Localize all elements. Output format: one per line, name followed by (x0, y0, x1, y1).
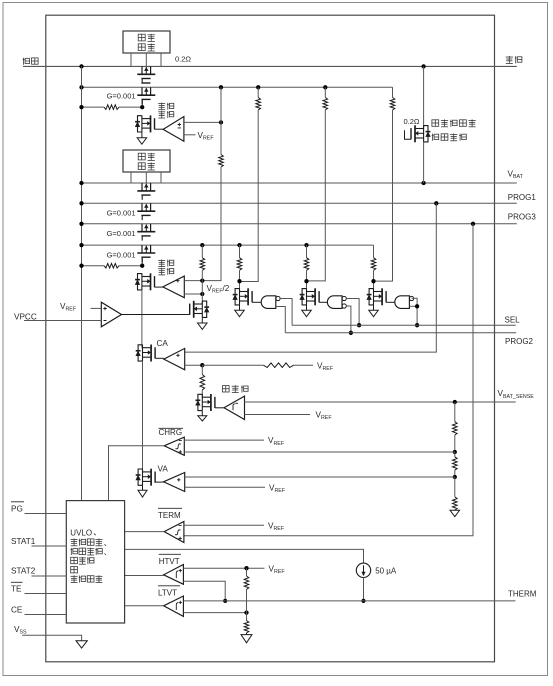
transistor Q3 VBAT rail FET (141, 183, 143, 191)
transistor Q14 (306, 288, 308, 305)
junction G3 tie (415, 304, 419, 308)
wire x325 lower (307, 110, 326, 281)
junction gate feed at bus (79, 105, 83, 109)
wire SEL line (292, 324, 516, 326)
svg-text:50 µA: 50 µA (375, 567, 397, 576)
wire ideal diode drain (423, 66, 425, 128)
transistor Q10 CA FET (142, 345, 144, 362)
label PG (11, 501, 24, 503)
svg-text:PROG3: PROG3 (508, 212, 537, 221)
wire PG (25, 513, 67, 515)
wire G1 bottom output to PROG2 (276, 307, 286, 333)
wire gate feed lower (82, 265, 105, 267)
ground arrow under Q9 (201, 318, 203, 323)
resistor R10 (373, 245, 375, 258)
junction divider CHRG tap (453, 450, 457, 454)
resistor R3 (256, 98, 261, 111)
junction lower gate feed at FET (140, 264, 144, 268)
svg-text:UVLO: UVLO (70, 528, 92, 537)
wire U5 bottom input (245, 414, 311, 416)
wire x392 top (392, 87, 394, 97)
direction control box B2 (123, 150, 170, 172)
pin B2 left (130, 172, 132, 183)
wire PROG3 tap to TERM (184, 224, 473, 536)
wire divider mid1 (454, 435, 456, 452)
resistor R2 (219, 155, 224, 168)
wire CA ref (202, 364, 263, 366)
label output (506, 56, 513, 63)
wire Q1 gate to Q2 gate (141, 79, 143, 84)
wire Q10 gate to U4 (155, 357, 164, 359)
wire U6 top input (184, 439, 264, 441)
wire G2 bubble output to SEL (347, 299, 359, 326)
svg-text:0.2Ω: 0.2Ω (404, 117, 420, 126)
op-amp U2 current limit 2 (163, 276, 185, 298)
svg-text:CA: CA (157, 339, 169, 348)
junction U10 ref tap (244, 610, 248, 614)
label input (23, 58, 30, 65)
svg-text:STAT2: STAT2 (11, 566, 36, 575)
resistor R8 (239, 245, 241, 258)
wire U4 bottom input (185, 364, 203, 366)
wire U9 output to UVLO (125, 575, 164, 577)
node junction input bus on top rail (79, 64, 83, 68)
Q2 gate bar upper (141, 82, 150, 84)
comparator U10 LTVT (164, 596, 184, 616)
wire Q12 gate to U5 (215, 407, 224, 409)
wire Q14 drain (306, 281, 308, 291)
wire Q14 gate lead (319, 301, 328, 303)
wire x392 lower (374, 110, 393, 281)
svg-text:THERM: THERM (508, 589, 537, 598)
ground arrow divider (454, 509, 456, 511)
resistor R17 (244, 621, 249, 634)
wire x325 top (324, 87, 326, 97)
junction rail245 x202 (200, 243, 204, 247)
wire Q13 drain (239, 281, 241, 291)
resistor R15 (454, 477, 456, 497)
svg-text:CHRG: CHRG (159, 428, 183, 437)
junction Q13 drain node (237, 279, 241, 283)
resistor R16 (244, 576, 249, 590)
wire U1 top input (184, 121, 221, 123)
svg-text:VPCC: VPCC (14, 312, 37, 321)
wire Q10 down to Q11 (142, 361, 144, 472)
svg-text:G=0.001: G=0.001 (107, 209, 136, 218)
junction rail B at bus (79, 85, 83, 89)
wire U2 bottom input (184, 293, 202, 295)
wire gate feed top right (119, 106, 142, 108)
op-amp U1 current limit (163, 117, 184, 142)
wire VPCC input (24, 320, 101, 322)
pin B1 right (160, 53, 162, 66)
wire R11 to Q12 (201, 390, 203, 397)
transistor Q7 current limit FET (141, 115, 143, 132)
label sync switch (432, 134, 439, 141)
wire PROG3 rail (82, 223, 517, 225)
svg-text:VA: VA (158, 465, 169, 474)
transistor Q2 power FET lower (141, 87, 143, 95)
transistor Q13 (239, 288, 241, 305)
wire UVLO to I1 (125, 549, 364, 563)
op-amp U3 VPCC buffer (101, 302, 121, 327)
svg-text:G=0.001: G=0.001 (107, 250, 136, 259)
wire ref chain mid (246, 590, 248, 621)
wire x221 upper (220, 87, 222, 154)
label TE (11, 581, 23, 583)
resistor R11 (200, 375, 205, 391)
junction U9 on THERM (223, 599, 227, 603)
wire R11 top (201, 365, 203, 374)
direction control box B1 (123, 31, 170, 53)
wire rail 245 (82, 244, 374, 246)
resistor R4 (323, 98, 328, 111)
label LTVT (158, 585, 180, 587)
junction gate feed at FET gate (140, 105, 144, 109)
wire Q8 source down to Q10 (141, 290, 143, 348)
label ideal diode (432, 120, 439, 127)
pin B1 left (130, 53, 132, 66)
transistor Q12 precharge FET (201, 394, 203, 411)
ground VSS (76, 641, 87, 648)
label CHRG (159, 427, 184, 429)
resistor R14 (454, 452, 456, 457)
pin B2 middle (145, 172, 147, 183)
resistor R7 (201, 245, 203, 258)
junction U1 input x221 (219, 120, 223, 124)
junction Q14 drain node (304, 279, 308, 283)
junction PROG3 tap (471, 222, 475, 226)
junction rail245 x306 (304, 243, 308, 247)
svg-text:TERM: TERM (158, 511, 181, 520)
wire U6 output to UVLO (109, 446, 165, 501)
wire U10 output to UVLO (125, 605, 164, 607)
transistor Q15 (373, 288, 375, 305)
junction VBAT at ideal diode (421, 181, 425, 185)
wire x221 lower (202, 167, 221, 281)
ground arrow under Q14 (306, 305, 308, 310)
transistor Q11 VA FET (142, 469, 144, 486)
ground arrow under Q15 (373, 305, 375, 310)
junction U9 ref tap (244, 566, 248, 570)
junction battery divider top (453, 400, 457, 404)
wire Q9 drain (201, 294, 203, 304)
svg-text:0.2Ω: 0.2Ω (175, 55, 191, 64)
wire gate feed top (82, 106, 105, 108)
junction I1 on THERM (361, 599, 365, 603)
svg-text:/2: /2 (223, 284, 230, 293)
comparator U7 VA (164, 473, 185, 492)
resistor R5 (390, 98, 395, 111)
op-amp U4 CA (164, 348, 185, 369)
gate G3 (395, 296, 410, 309)
wire Q11 gate to U7 (155, 481, 163, 483)
wire TE (25, 593, 67, 595)
wire CE (25, 614, 67, 616)
resistor R9 (306, 245, 308, 258)
junction U4 bottom input (200, 363, 204, 367)
resistor R12 (264, 363, 294, 368)
junction Q15 drain node (371, 279, 375, 283)
junction PROG1 tap (434, 201, 438, 205)
svg-text:LTVT: LTVT (158, 588, 177, 597)
wire PROG1 tap to CA (185, 203, 437, 352)
junction VBAT at bus (79, 181, 83, 185)
comparator U9 HTVT (164, 565, 184, 585)
svg-text:PG: PG (11, 505, 23, 514)
resistor R13 (454, 402, 456, 422)
junction rail B x258 (256, 85, 260, 89)
svg-text:PROG2: PROG2 (505, 337, 534, 346)
wire Q16 source to VBAT (423, 142, 425, 183)
label current limit 2 (158, 259, 165, 266)
wire Q13 gate lead (252, 301, 261, 303)
transistor Q6 G=0.001 FET rail245 (141, 245, 143, 253)
gate G2 (327, 296, 342, 309)
junction rail245 x239 (237, 243, 241, 247)
wire CA ref right (294, 364, 314, 366)
junction PROG3 at bus (79, 222, 83, 226)
svg-text:G=0.001: G=0.001 (107, 229, 136, 238)
svg-text:HTVT: HTVT (159, 557, 180, 566)
wire divider mid2 (454, 470, 456, 477)
wire G3 outputs tied (412, 298, 418, 325)
wire VBAT rail (82, 182, 517, 184)
wire R7 to junctions (201, 270, 203, 294)
gate G1 (261, 296, 276, 309)
label HTVT (159, 553, 181, 555)
wire STAT2 (32, 575, 67, 577)
junction G2 on SEL (357, 323, 361, 327)
node junction ideal-diode on top rail (421, 64, 425, 68)
wire buffer plus input (91, 307, 102, 309)
junction rail245 at bus (79, 243, 83, 247)
UVLO control logic box B3 (66, 501, 124, 623)
junction divider VA tap (453, 475, 457, 479)
wire Q16 gate lead (405, 130, 412, 139)
wire Q15 drain (373, 281, 375, 291)
junction U2 top input (200, 278, 204, 282)
wire Q15 gate lead (386, 301, 395, 303)
ground arrow under Q13 (239, 305, 241, 310)
wire VSS (22, 635, 81, 640)
wire left bus vertical (81, 66, 83, 500)
wire PROG1 rail (82, 202, 517, 204)
ground arrow ref chain (246, 633, 248, 635)
wire Q7 gate to U1 (155, 128, 164, 130)
svg-text:PROG1: PROG1 (508, 193, 537, 202)
label precharge (222, 386, 229, 392)
wire U2 top input (184, 280, 202, 282)
label TERM (158, 507, 182, 509)
transistor Q5 G=0.001 FET PROG3 (141, 224, 143, 232)
label current limit 1 (158, 103, 165, 110)
junction G3 on SEL (415, 323, 419, 327)
wire U10 bottom input (183, 612, 246, 614)
wire STAT1 (32, 545, 67, 547)
svg-text:SEL: SEL (505, 316, 521, 325)
pin B1 middle (145, 53, 147, 66)
wire I1 to THERM (363, 578, 365, 601)
wire PROG2 line (285, 332, 516, 334)
wire x258 lower (240, 110, 259, 282)
wire U7 bottom input (185, 486, 265, 488)
junction rail B x325 (323, 85, 327, 89)
wire U5 top input / VBAT_SENSE line (245, 401, 516, 403)
transistor Q4 G=0.001 FET PROG1 (141, 203, 143, 211)
transistor Q8 current limit FET 2 (141, 273, 143, 290)
IC boundary box (46, 15, 495, 662)
wire Q9 gate lead (122, 314, 190, 316)
transistor Q1 power FET upper (141, 66, 143, 74)
svg-text:CE: CE (11, 605, 23, 614)
wire U8 output to UVLO (125, 531, 164, 533)
wire G1 bubble output to SEL (280, 299, 292, 326)
wire G2 bottom output to PROG2 (347, 306, 351, 333)
junction rail B x221 (219, 85, 223, 89)
ground arrow under Q11 (142, 485, 144, 490)
wire x258 top (257, 87, 259, 97)
wire VIN-VOUT top rail (23, 65, 517, 67)
wire U9 top input (183, 567, 264, 569)
svg-text:STAT1: STAT1 (11, 537, 36, 546)
current source I1 50uA (356, 563, 370, 577)
wire U6 bottom input to divider (184, 451, 455, 453)
ground arrow under Q7 (141, 132, 143, 138)
transistor Q16 ideal diode switch (423, 125, 425, 142)
wire U1 bottom input stub (184, 134, 196, 136)
wire Q6 gate down (141, 257, 143, 266)
pin B2 right (160, 172, 162, 183)
junction U2 bottom input (200, 292, 204, 296)
resistor R1 (104, 105, 119, 110)
op-amp U5 precharge (224, 396, 245, 419)
ground arrow under Q12 (201, 411, 203, 416)
comparator U8 TERM (164, 522, 184, 543)
comparator U6 CHRG (164, 437, 184, 455)
svg-text:G=0.001: G=0.001 (107, 92, 136, 101)
wire rail B sense line (82, 86, 393, 88)
wire Q8 gate to U2 (155, 286, 163, 288)
junction G2 on PROG2 (349, 331, 353, 335)
wire THERM line (183, 600, 515, 602)
wire U9 bottom input to THERM (183, 581, 225, 601)
junction lower gate feed at bus (79, 264, 83, 268)
svg-text:TE: TE (11, 585, 22, 594)
wire U8 top input (184, 524, 264, 526)
wire ref chain top (246, 568, 248, 576)
junction PROG1 at bus (79, 201, 83, 205)
wire gate feed lower right (119, 265, 142, 267)
transistor Q9 VPCC clamp FET (201, 301, 203, 318)
resistor R6 (104, 263, 119, 268)
wire U7 top input to divider (185, 476, 455, 478)
